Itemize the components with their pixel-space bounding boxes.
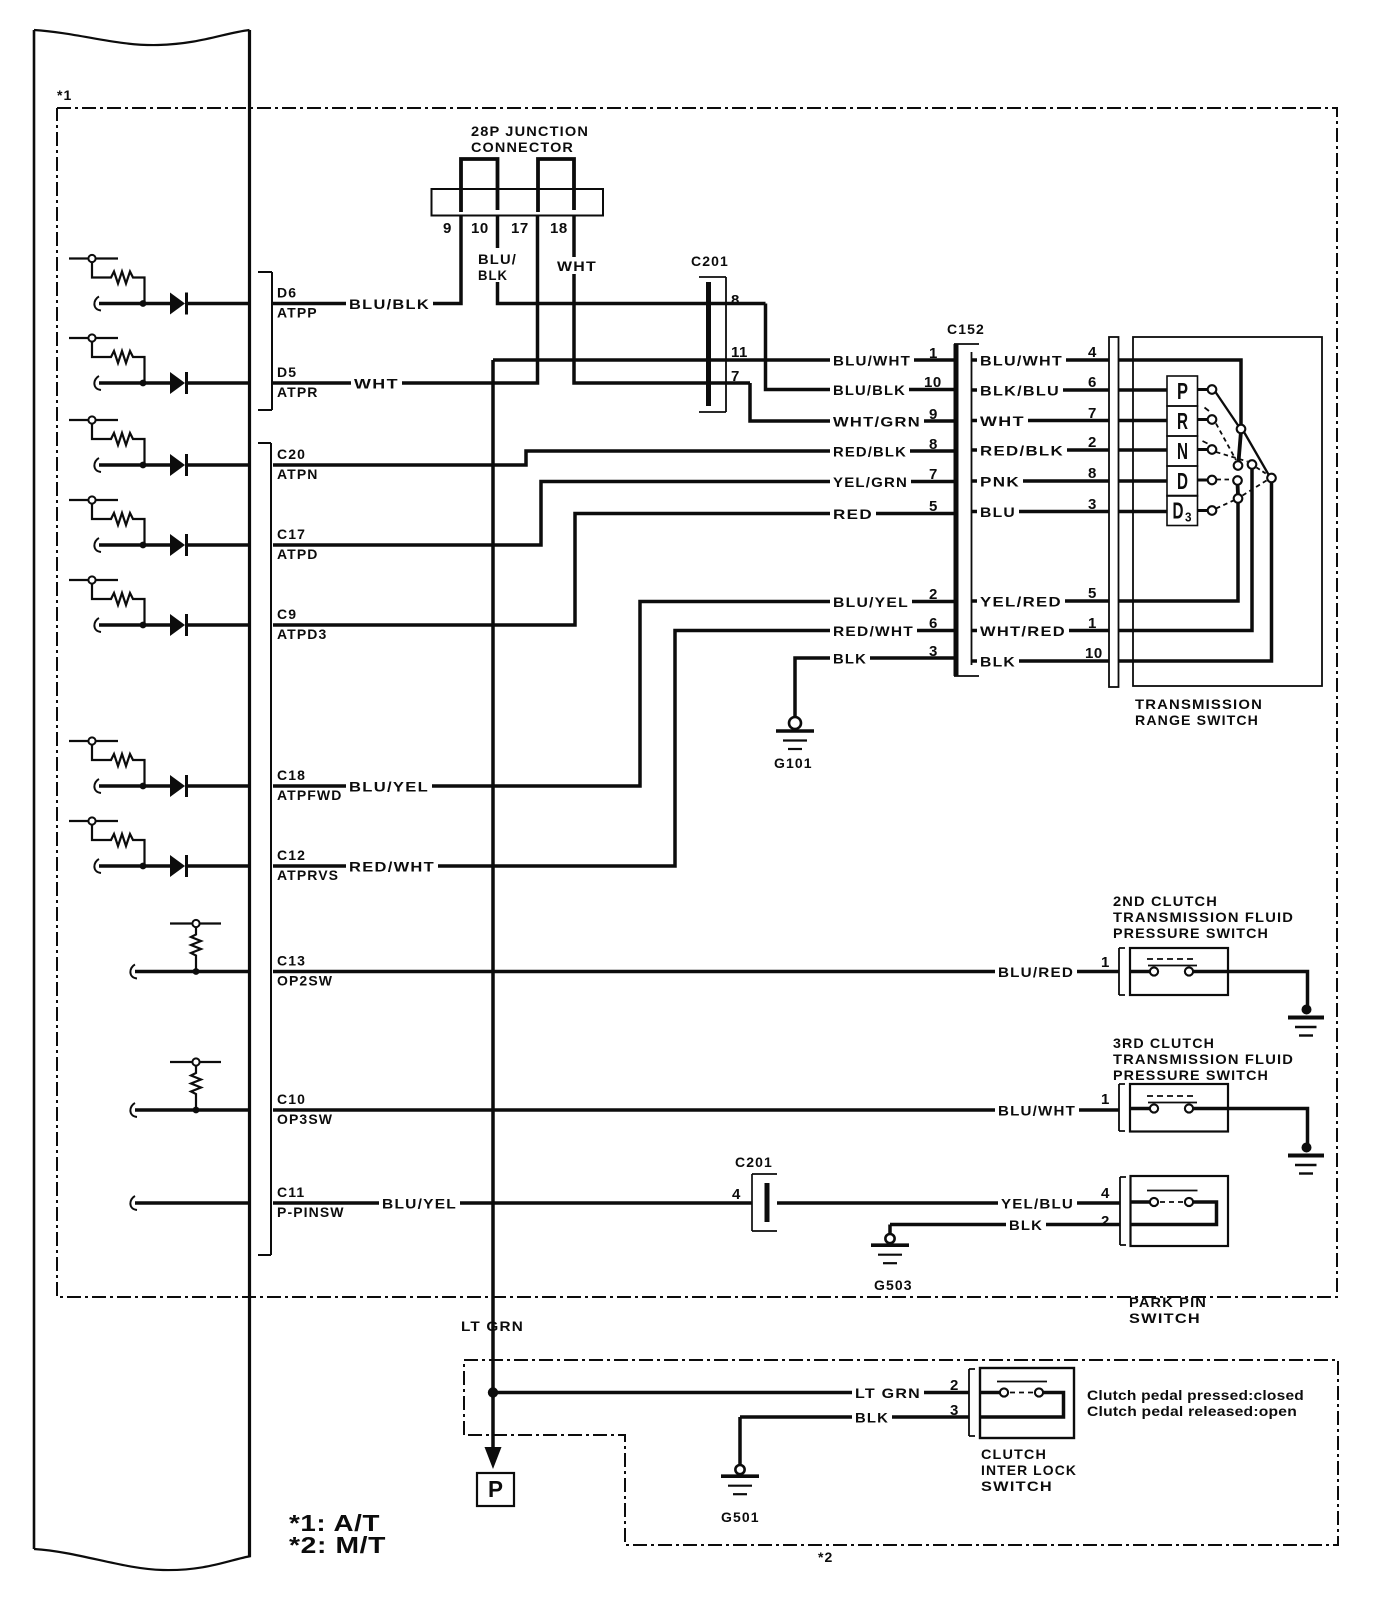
dashed arm D position bbox=[1217, 479, 1233, 481]
wire C152 to range switch pin 4 (BLU/WHT) bbox=[972, 358, 1110, 362]
pull-up terminal circle (D6) bbox=[69, 257, 118, 259]
2nd clutch switch arm (open) bbox=[1148, 965, 1197, 967]
svg-text:C11: C11 bbox=[277, 1184, 305, 1200]
diode (C9) bbox=[170, 614, 185, 636]
range switch connector half bbox=[1109, 337, 1119, 687]
svg-text:6: 6 bbox=[1088, 374, 1097, 391]
svg-text:BLU/BLK: BLU/BLK bbox=[833, 382, 906, 398]
ECM connector bracket D6-D5 bbox=[258, 272, 272, 410]
svg-text:2: 2 bbox=[1101, 1213, 1110, 1230]
dashed arm D3 position bbox=[1216, 501, 1234, 509]
svg-text:BLK: BLK bbox=[855, 1410, 889, 1426]
resistor (C13 pull-up, vertical) bbox=[191, 928, 201, 972]
wire range switch pin 4 to common stud A bbox=[1119, 360, 1242, 425]
svg-text:1: 1 bbox=[1101, 954, 1110, 971]
svg-text:ATPP: ATPP bbox=[277, 305, 318, 321]
arrowhead LT GRN continuation bbox=[485, 1447, 502, 1469]
wire C13 internal bbox=[130, 965, 137, 979]
wire C152 to range switch pin 8 (PNK) bbox=[972, 479, 1110, 483]
diode (D5) bbox=[170, 372, 185, 394]
wire BLK park pin switch pin 2 to ground G503 bbox=[890, 1225, 1120, 1235]
connector C152 symbol bbox=[954, 344, 979, 676]
wire C20 internal bbox=[94, 458, 101, 472]
contact stub R bbox=[1198, 418, 1209, 421]
svg-text:OP3SW: OP3SW bbox=[277, 1111, 333, 1127]
wire label BLK (interlock) bbox=[852, 1410, 892, 1427]
svg-text:R: R bbox=[1177, 408, 1188, 434]
park pin switch internal return to pin 2 bbox=[1131, 1202, 1217, 1225]
svg-text:BLU/WHT: BLU/WHT bbox=[833, 353, 911, 369]
wire C10 BLU/WHT to 3rd clutch pressure switch bbox=[273, 1108, 1119, 1112]
contact circle D3 bbox=[1208, 506, 1217, 515]
pull-up terminal circle (C12) bbox=[69, 820, 118, 822]
diode (D6) bbox=[170, 293, 185, 315]
page continuation box P bbox=[477, 1473, 514, 1506]
svg-text:G501: G501 bbox=[721, 1509, 760, 1525]
wire range switch pin 7 to R contact bbox=[1119, 419, 1168, 423]
svg-text:P: P bbox=[1177, 378, 1188, 404]
svg-text:P-PINSW: P-PINSW bbox=[277, 1204, 345, 1220]
node junction (C9) bbox=[140, 622, 147, 629]
wire label WHT (C152 right) bbox=[977, 413, 1028, 430]
wire D6 internal bbox=[94, 297, 101, 311]
svg-text:ATPR: ATPR bbox=[277, 384, 318, 400]
common stud circle c5 bbox=[1234, 494, 1243, 503]
svg-text:18: 18 bbox=[550, 220, 568, 237]
park pin switch wire into contact bbox=[1131, 1200, 1151, 1204]
svg-text:C9: C9 bbox=[277, 606, 297, 622]
wire C9 RED to C152 pin 5 row bbox=[273, 514, 954, 626]
wire label WHT/RED (C152 right) bbox=[977, 623, 1069, 640]
svg-text:YEL/RED: YEL/RED bbox=[980, 594, 1062, 610]
svg-text:LT GRN: LT GRN bbox=[855, 1385, 921, 1401]
svg-text:4: 4 bbox=[1101, 1185, 1110, 1202]
wire range switch pin 2 to N contact bbox=[1119, 448, 1168, 452]
pull-up terminal circle (C18) bbox=[69, 740, 118, 742]
common stud circle c1 bbox=[1237, 425, 1246, 434]
svg-text:BLU/YEL: BLU/YEL bbox=[382, 1196, 457, 1212]
ground G101 bbox=[789, 717, 801, 729]
A/T section dash-dot border *1 bbox=[57, 108, 1337, 1297]
ground G503 bbox=[885, 1234, 894, 1243]
common stud circle c4 bbox=[1233, 476, 1242, 485]
svg-text:RANGE SWITCH: RANGE SWITCH bbox=[1135, 712, 1259, 728]
svg-text:3: 3 bbox=[1088, 496, 1097, 513]
contact stub D3 bbox=[1198, 509, 1209, 512]
wire C152 to range switch pin 7 (WHT) bbox=[972, 419, 1110, 423]
wire junction pin 18 WHT to C201 pin 7 bbox=[574, 215, 750, 383]
contact stub D bbox=[1198, 479, 1209, 482]
contact circle R bbox=[1208, 415, 1217, 424]
wire label BLU/WHT (C152 left) bbox=[830, 353, 914, 370]
wire D5 WHT to junction pin 17 bbox=[273, 215, 538, 383]
clutch interlock arm (open) bbox=[997, 1381, 1047, 1383]
wire C152 to range switch pin 10 (BLK) bbox=[972, 659, 1110, 663]
svg-text:9: 9 bbox=[443, 220, 452, 237]
wire C152 to range switch pin 2 (RED/BLK) bbox=[972, 448, 1110, 452]
svg-text:BLK: BLK bbox=[478, 267, 508, 283]
common stud segment c1-c2 bbox=[1239, 431, 1242, 462]
node junction (D6) bbox=[140, 300, 147, 307]
wire range switch pin 3 to D3 contact bbox=[1119, 510, 1168, 514]
resistor (C10 pull-up, vertical) bbox=[191, 1066, 201, 1110]
wire C17 internal bbox=[94, 538, 101, 552]
svg-text:OP2SW: OP2SW bbox=[277, 973, 333, 989]
svg-text:5: 5 bbox=[1088, 585, 1097, 602]
wire label RED/WHT (C152 left) bbox=[830, 623, 917, 640]
wire C201 pin 7 WHT/GRN to C152 pin 9 row bbox=[750, 383, 954, 421]
contact circle P bbox=[1208, 385, 1217, 394]
pull-up terminal circle (C9) bbox=[69, 579, 118, 581]
svg-text:D: D bbox=[1173, 498, 1184, 524]
wire label BLK (C152 right) bbox=[977, 654, 1019, 671]
svg-text:*2: *2 bbox=[818, 1549, 833, 1565]
svg-text:BLK: BLK bbox=[833, 651, 867, 667]
svg-text:C201: C201 bbox=[735, 1154, 773, 1170]
position block D3 bbox=[1167, 496, 1198, 526]
wire LT GRN to clutch interlock switch pin 2 bbox=[493, 1391, 969, 1395]
resistor (D6 pull-up) bbox=[92, 263, 145, 304]
svg-text:PARK PIN: PARK PIN bbox=[1129, 1294, 1207, 1310]
svg-text:RED: RED bbox=[833, 506, 873, 522]
svg-text:Clutch pedal released:open: Clutch pedal released:open bbox=[1087, 1403, 1297, 1419]
wire label BLU (C152 right) bbox=[977, 504, 1019, 521]
3rd clutch switch wire into contact bbox=[1130, 1107, 1150, 1111]
2nd clutch pressure switch box bbox=[1130, 948, 1228, 995]
wire C12 internal bbox=[94, 859, 101, 873]
contact circle D bbox=[1208, 476, 1217, 485]
svg-text:CLUTCH: CLUTCH bbox=[981, 1446, 1047, 1462]
svg-text:3: 3 bbox=[929, 643, 938, 660]
svg-text:8: 8 bbox=[731, 292, 740, 309]
svg-text:28P JUNCTION: 28P JUNCTION bbox=[471, 123, 589, 139]
svg-text:3: 3 bbox=[1185, 510, 1192, 525]
svg-text:2: 2 bbox=[950, 1377, 959, 1394]
svg-text:TRANSMISSION FLUID: TRANSMISSION FLUID bbox=[1113, 1051, 1294, 1067]
transmission range switch box bbox=[1133, 337, 1322, 686]
common stud circle c2 bbox=[1234, 461, 1243, 470]
svg-text:6: 6 bbox=[929, 615, 938, 632]
svg-text:BLU: BLU bbox=[980, 504, 1016, 520]
clutch interlock dashed closed state bbox=[1010, 1392, 1033, 1394]
svg-text:Clutch pedal pressed:closed: Clutch pedal pressed:closed bbox=[1087, 1387, 1304, 1403]
wire range switch pin 5 to common stud B bbox=[1119, 502, 1239, 601]
wire range switch pin 8 to D contact bbox=[1119, 479, 1168, 483]
wire label BLU/YEL (C18) bbox=[346, 779, 432, 796]
wire C11 internal bbox=[130, 1196, 137, 1210]
wire label BLK/BLU (C152 right) bbox=[977, 383, 1063, 400]
svg-text:C201: C201 bbox=[691, 253, 729, 269]
wire C152 to range switch pin 1 (WHT/RED) bbox=[972, 629, 1110, 633]
common stud circle c6 bbox=[1267, 474, 1276, 483]
park pin switch box bbox=[1131, 1176, 1229, 1246]
wire C18 BLU/YEL to C152 pin 2 row bbox=[273, 602, 954, 787]
connector C201 (dash panel) symbol bbox=[752, 1174, 777, 1231]
junction pin 10 wire label BLU/BLK bbox=[475, 248, 519, 282]
svg-text:BLK: BLK bbox=[1009, 1217, 1043, 1233]
wire label BLU/YEL (C11) bbox=[379, 1196, 460, 1213]
svg-text:CONNECTOR: CONNECTOR bbox=[471, 139, 574, 155]
svg-text:WHT: WHT bbox=[980, 413, 1025, 429]
svg-text:ATPN: ATPN bbox=[277, 466, 318, 482]
svg-text:C20: C20 bbox=[277, 446, 306, 462]
dashed arm R position bbox=[1216, 424, 1236, 461]
wire range switch pin 6 to P contact bbox=[1119, 388, 1168, 392]
wire C12 RED/WHT to C152 pin 6 row bbox=[273, 631, 954, 867]
wire C152 to range switch pin 3 (BLU) bbox=[972, 510, 1110, 514]
connector C201 symbol bbox=[699, 277, 726, 412]
pull-up terminal circle (C10) bbox=[170, 1061, 221, 1063]
junction dot LT GRN branch bbox=[488, 1387, 498, 1397]
svg-text:PRESSURE SWITCH: PRESSURE SWITCH bbox=[1113, 925, 1269, 941]
wire C13 BLU/RED to 2nd clutch pressure switch bbox=[273, 970, 1119, 974]
wire label YEL/RED (C152 right) bbox=[977, 594, 1065, 611]
svg-text:17: 17 bbox=[511, 220, 529, 237]
svg-text:9: 9 bbox=[929, 406, 938, 423]
svg-text:P: P bbox=[488, 1476, 503, 1502]
wire C17 to ECM edge bbox=[185, 543, 249, 547]
wire C11 BLU/YEL to C201 pin 4 bbox=[273, 1201, 752, 1205]
svg-text:PNK: PNK bbox=[980, 474, 1020, 490]
wire label PNK (C152 right) bbox=[977, 474, 1023, 491]
wire C152 to range switch pin 5 (YEL/RED) bbox=[972, 599, 1110, 603]
wire range switch pin 1 to common stud C bbox=[1119, 468, 1253, 631]
svg-text:TRANSMISSION FLUID: TRANSMISSION FLUID bbox=[1113, 909, 1294, 925]
wire C20 to ECM edge bbox=[185, 463, 249, 467]
wire label BLU/BLK (C152 left) bbox=[830, 382, 909, 399]
svg-text:1: 1 bbox=[929, 345, 938, 362]
junction pin 18 wire label WHT bbox=[554, 257, 600, 274]
wire D6 BLU/BLK to junction pin 9 bbox=[273, 215, 461, 304]
svg-text:LT GRN: LT GRN bbox=[461, 1318, 524, 1334]
wire label BLK (park pin) bbox=[1006, 1217, 1046, 1234]
wire C201 pin 8 BLU/BLK down to C152 pin 10 row bbox=[766, 304, 955, 390]
ground G501 bbox=[735, 1465, 744, 1474]
svg-text:BLK/BLU: BLK/BLU bbox=[980, 383, 1060, 399]
diode (C12) bbox=[170, 855, 185, 877]
dashed link c5 to pivot bbox=[1243, 481, 1267, 496]
node junction (C10) bbox=[193, 1107, 200, 1114]
svg-text:5: 5 bbox=[929, 498, 938, 515]
wire label BLK (C152 left) bbox=[830, 651, 870, 668]
svg-text:WHT/GRN: WHT/GRN bbox=[833, 414, 921, 430]
svg-text:C10: C10 bbox=[277, 1091, 306, 1107]
3rd clutch switch arm (open) bbox=[1148, 1102, 1197, 1104]
resistor (C17 pull-up) bbox=[92, 504, 145, 545]
resistor (C20 pull-up) bbox=[92, 424, 145, 465]
svg-text:D5: D5 bbox=[277, 364, 297, 380]
svg-text:RED/WHT: RED/WHT bbox=[833, 623, 914, 639]
park pin switch contact circles bbox=[1150, 1198, 1158, 1206]
wire 2nd clutch switch to ground bbox=[1193, 972, 1308, 1007]
wire label BLU/WHT (C152 right) bbox=[977, 353, 1066, 370]
wire 3rd clutch switch to ground bbox=[1193, 1109, 1308, 1145]
pull-up terminal circle (D5) bbox=[69, 337, 118, 339]
svg-text:BLK: BLK bbox=[980, 654, 1016, 670]
wire C152 to range switch pin 6 (BLK/BLU) bbox=[972, 388, 1110, 392]
contact stub P bbox=[1198, 388, 1209, 391]
svg-text:INTER LOCK: INTER LOCK bbox=[981, 1462, 1077, 1478]
svg-text:7: 7 bbox=[1088, 405, 1097, 422]
pull-up terminal circle (C17) bbox=[69, 499, 118, 501]
wire YEL/BLU C201 pin 4 to park pin switch pin 4 bbox=[777, 1201, 1120, 1205]
diode (C18) bbox=[170, 775, 185, 797]
svg-text:C18: C18 bbox=[277, 767, 306, 783]
dashed link c3 to pivot bbox=[1257, 468, 1267, 475]
svg-text:G503: G503 bbox=[874, 1277, 913, 1293]
wire label RED (C152 left) bbox=[830, 506, 876, 523]
wire label RED/WHT (C12) bbox=[346, 859, 438, 876]
stray dash above N bbox=[1203, 441, 1208, 444]
wire label BLU/RED (C13) bbox=[995, 964, 1077, 981]
svg-text:C152: C152 bbox=[947, 321, 985, 337]
svg-text:1: 1 bbox=[1088, 615, 1097, 632]
svg-text:2: 2 bbox=[929, 586, 938, 603]
wire C10 internal bbox=[130, 1103, 137, 1117]
node junction (C13) bbox=[193, 968, 200, 975]
wire C9 internal bbox=[94, 618, 101, 632]
svg-text:1: 1 bbox=[1101, 1091, 1110, 1108]
wire D5 to ECM edge bbox=[185, 381, 249, 385]
clutch interlock switch connector bracket bbox=[969, 1369, 975, 1436]
node junction (D5) bbox=[140, 380, 147, 387]
pull-up terminal circle (C20) bbox=[69, 419, 118, 421]
svg-text:WHT: WHT bbox=[557, 258, 597, 274]
M/T section dash-dot border *2 bbox=[464, 1360, 1338, 1545]
ECM connector bracket C20..C11 bbox=[258, 443, 271, 1255]
position block D bbox=[1167, 466, 1198, 496]
svg-text:SWITCH: SWITCH bbox=[1129, 1310, 1201, 1326]
wire D6 to ECM edge bbox=[185, 302, 249, 306]
3rd clutch switch dashed closed state bbox=[1147, 1095, 1194, 1097]
svg-text:D: D bbox=[1177, 468, 1188, 494]
svg-text:RED/BLK: RED/BLK bbox=[833, 444, 907, 460]
resistor (C9 pull-up) bbox=[92, 584, 145, 625]
position block N bbox=[1167, 436, 1198, 466]
svg-text:10: 10 bbox=[471, 220, 489, 237]
wire label BLU/YEL (C152 left) bbox=[830, 594, 912, 611]
ground (3rd clutch switch) bbox=[1302, 1143, 1312, 1153]
diode (C17) bbox=[170, 534, 185, 556]
2nd clutch switch wire into contact bbox=[1130, 970, 1150, 974]
wire label LT GRN (interlock) bbox=[852, 1385, 924, 1402]
wire label WHT (D5) bbox=[351, 376, 402, 393]
wire label YEL/BLU bbox=[998, 1196, 1077, 1213]
svg-text:BLU/YEL: BLU/YEL bbox=[833, 594, 909, 610]
wire C12 to ECM edge bbox=[185, 864, 249, 868]
wire LT GRN vertical trunk bbox=[491, 360, 495, 1450]
svg-text:10: 10 bbox=[1085, 645, 1103, 662]
svg-text:TRANSMISSION: TRANSMISSION bbox=[1135, 696, 1263, 712]
node junction (C17) bbox=[140, 542, 147, 549]
clutch interlock wire into contact bbox=[980, 1391, 1000, 1395]
wire label RED/BLK (C152 right) bbox=[977, 443, 1067, 460]
wire range switch pin 10 to pivot stud bbox=[1119, 482, 1272, 661]
clutch interlock internal return to pin 3 bbox=[980, 1393, 1064, 1418]
wire BLK C152 pin 3 to ground G101 bbox=[795, 658, 954, 717]
28P junction connector body bbox=[432, 189, 604, 216]
2nd clutch switch dashed closed state bbox=[1147, 958, 1194, 960]
position block R bbox=[1167, 406, 1198, 436]
wire C20 RED/BLK to C152 pin 8 row bbox=[273, 451, 954, 465]
svg-text:BLU/YEL: BLU/YEL bbox=[349, 779, 429, 795]
wire junction pin 10 BLU/BLK to C201 pin 8 bbox=[498, 215, 766, 304]
svg-text:PRESSURE SWITCH: PRESSURE SWITCH bbox=[1113, 1067, 1269, 1083]
wire C17 YEL/GRN to C152 pin 7 row bbox=[273, 482, 954, 546]
wire C18 to ECM edge bbox=[185, 784, 249, 788]
svg-text:G101: G101 bbox=[774, 755, 813, 771]
svg-text:SWITCH: SWITCH bbox=[981, 1478, 1053, 1494]
svg-text:ATPD3: ATPD3 bbox=[277, 626, 327, 642]
svg-text:2ND CLUTCH: 2ND CLUTCH bbox=[1113, 893, 1218, 909]
common stud segment c4-c5 bbox=[1236, 483, 1240, 495]
2nd clutch switch contact circles bbox=[1150, 967, 1158, 975]
park pin switch dashed closed state bbox=[1160, 1201, 1184, 1203]
svg-text:8: 8 bbox=[1088, 465, 1097, 482]
stray dash above R bbox=[1205, 408, 1210, 412]
pull-up terminal circle (C13) bbox=[170, 922, 221, 924]
svg-text:*1: *1 bbox=[57, 87, 72, 103]
svg-text:C13: C13 bbox=[277, 953, 306, 969]
wire BLK clutch interlock switch pin 3 to G501 bbox=[740, 1417, 969, 1465]
svg-text:N: N bbox=[1177, 438, 1188, 464]
resistor (C12 pull-up) bbox=[92, 825, 145, 866]
svg-text:WHT: WHT bbox=[354, 376, 399, 392]
clutch interlock switch box bbox=[980, 1368, 1074, 1438]
svg-text:4: 4 bbox=[1088, 344, 1097, 361]
svg-text:D6: D6 bbox=[277, 285, 297, 301]
contact circle N bbox=[1208, 445, 1217, 454]
diode (C20) bbox=[170, 454, 185, 476]
wire label RED/BLK (C152 left) bbox=[830, 444, 910, 461]
wire D5 internal bbox=[94, 376, 101, 390]
wire label WHT/GRN (C152 left) bbox=[830, 414, 924, 431]
svg-text:8: 8 bbox=[929, 436, 938, 453]
node junction (C20) bbox=[140, 462, 147, 469]
node junction (C12) bbox=[140, 863, 147, 870]
svg-text:C17: C17 bbox=[277, 526, 306, 542]
wire C18 internal bbox=[94, 779, 101, 793]
3rd clutch switch connector bracket bbox=[1119, 1084, 1125, 1131]
ground (2nd clutch switch) bbox=[1302, 1005, 1312, 1015]
svg-text:RED/WHT: RED/WHT bbox=[349, 859, 435, 875]
resistor (D5 pull-up) bbox=[92, 342, 145, 383]
svg-text:ATPRVS: ATPRVS bbox=[277, 867, 339, 883]
3rd clutch pressure switch box bbox=[1130, 1084, 1228, 1132]
svg-text:3RD CLUTCH: 3RD CLUTCH bbox=[1113, 1035, 1215, 1051]
junction jumper loop pins 9-10 bbox=[461, 159, 498, 212]
clutch interlock contact circles bbox=[1000, 1388, 1008, 1396]
wire label YEL/GRN (C152 left) bbox=[830, 474, 911, 491]
junction jumper loop pins 17-18 bbox=[538, 159, 574, 212]
common stud circle c3 bbox=[1248, 460, 1257, 469]
ECM/PCM module band (torn page edges) bbox=[34, 30, 250, 45]
svg-text:*2: M/T: *2: M/T bbox=[289, 1532, 386, 1558]
park pin switch arm (open) bbox=[1147, 1190, 1198, 1192]
moving arm P position (solid) bbox=[1216, 392, 1239, 426]
moving arm to pivot (solid) bbox=[1244, 432, 1269, 475]
svg-text:ATPD: ATPD bbox=[277, 546, 318, 562]
svg-text:YEL/GRN: YEL/GRN bbox=[833, 474, 908, 490]
svg-text:BLU/WHT: BLU/WHT bbox=[998, 1103, 1076, 1119]
position block P bbox=[1167, 376, 1198, 406]
svg-text:4: 4 bbox=[732, 1186, 741, 1203]
svg-text:2: 2 bbox=[1088, 434, 1097, 451]
svg-text:10: 10 bbox=[924, 374, 942, 391]
wire C9 to ECM edge bbox=[185, 623, 249, 627]
svg-text:WHT/RED: WHT/RED bbox=[980, 623, 1066, 639]
wire label BLU/WHT (C10) bbox=[995, 1103, 1079, 1120]
